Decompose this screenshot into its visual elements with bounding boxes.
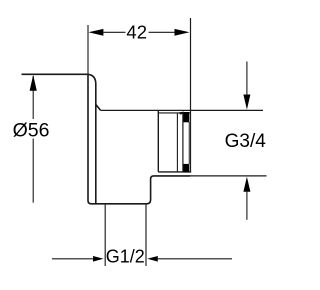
G1/2 right extension line (145, 204, 147, 266)
dia 56 up arrow (30, 75, 37, 91)
o-ring black bar top (184, 112, 190, 122)
G1/2 dimension line right segment with left-pointing arrow (158, 258, 232, 260)
nipple groove line 2 (182, 113, 184, 172)
svg-text:42: 42 (126, 21, 147, 42)
nipple top edge chamfer wedge near o-ring (180, 112, 184, 115)
42 dimension line left segment with left-pointing arrow (102, 31, 126, 33)
nipple left edge (157, 110, 159, 171)
svg-text:Ø56: Ø56 (13, 120, 50, 142)
shoulder extension to right (G3/4 lower extension line) (190, 175, 267, 177)
escutcheon inner rim line + bottom edge + body right edge + shoulder (88, 75, 190, 204)
G1/2 dimension line left segment with right-pointing arrow (52, 258, 94, 260)
G3/4 down arrow head (243, 95, 250, 110)
G3/4 down arrow shaft (246, 62, 248, 97)
nipple top edge (158, 112, 190, 114)
nipple right edge + 42 right extension line (190, 18, 192, 172)
boss top line + G3/4 upper extension line (101, 109, 264, 111)
part outline: escutcheon top edge, corner, right face, chamfer (22, 74, 191, 204)
42 dimension line right segment with right-pointing arrow (149, 31, 177, 33)
chamfer from right face to boss top (96, 105, 101, 111)
groove inner line between o-rings (188, 122, 190, 164)
svg-text:G1/2: G1/2 (106, 246, 145, 266)
dia 56 dimension line upper segment (32, 76, 34, 119)
nipple bottom edge (158, 171, 191, 173)
G1/2 left extension line (104, 204, 106, 266)
nipple groove line 1 (176, 113, 178, 172)
G3/4 up arrow shaft (246, 191, 248, 220)
o-ring black bar bottom (184, 164, 190, 172)
G3/4 up arrow head (243, 177, 250, 192)
svg-text:G3/4: G3/4 (225, 131, 267, 152)
dia 56 dimension line lower segment (32, 139, 34, 203)
42 left extension line (upper part of rim line) (87, 25, 89, 75)
